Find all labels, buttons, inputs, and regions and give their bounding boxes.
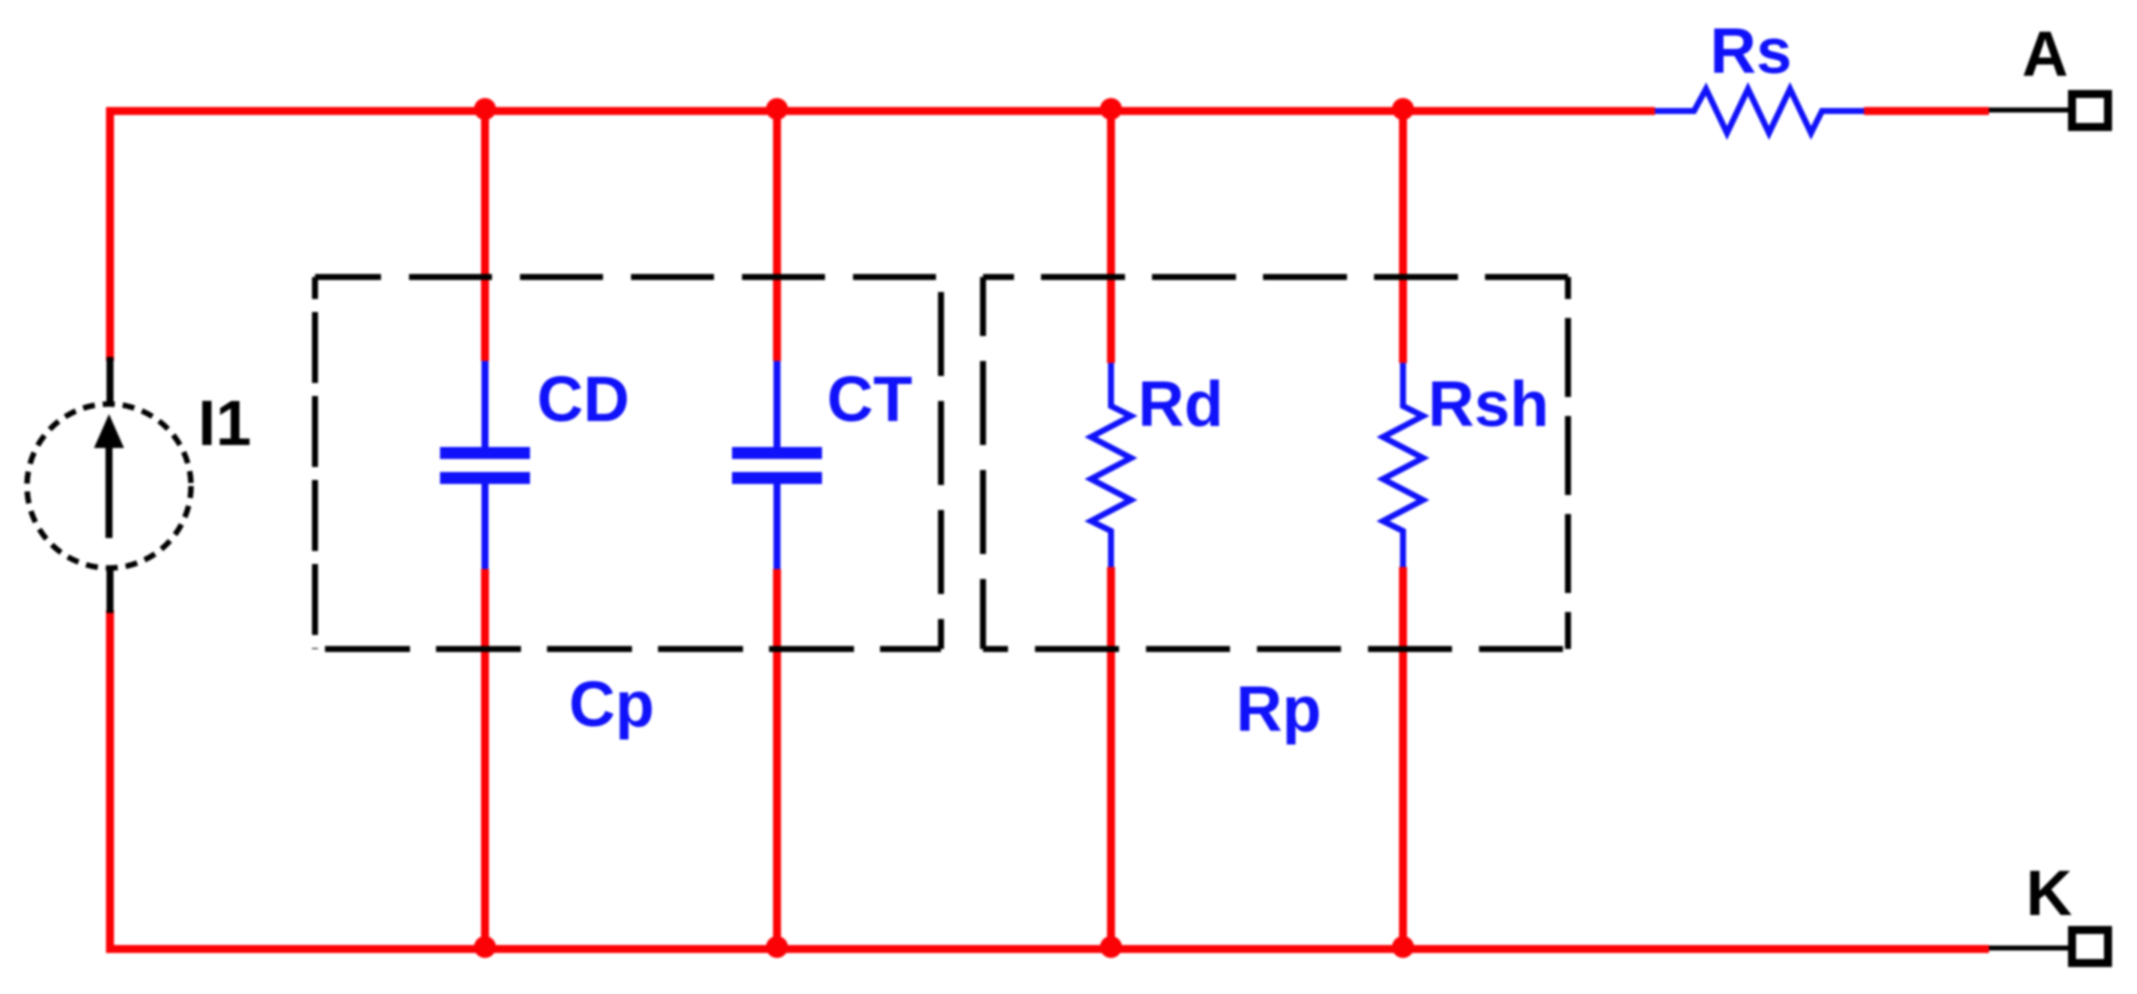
svg-text:CD: CD	[537, 363, 629, 435]
svg-text:Cp: Cp	[569, 668, 654, 740]
svg-text:Rsh: Rsh	[1428, 368, 1549, 440]
svg-text:A: A	[2022, 18, 2068, 90]
svg-text:CT: CT	[827, 363, 912, 435]
svg-text:Rp: Rp	[1236, 673, 1321, 745]
svg-text:K: K	[2026, 857, 2072, 929]
svg-text:Rs: Rs	[1710, 15, 1792, 87]
svg-text:Rd: Rd	[1138, 368, 1223, 440]
svg-text:I1: I1	[198, 387, 251, 459]
